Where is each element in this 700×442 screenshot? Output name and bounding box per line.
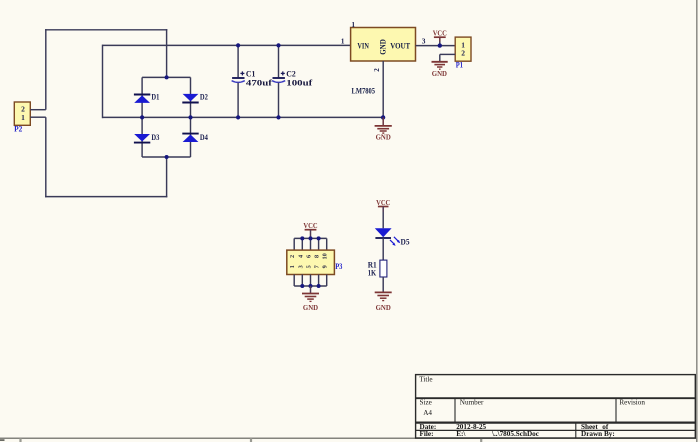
power VCC at D5 bbox=[376, 198, 390, 212]
node bridge top bbox=[165, 75, 169, 79]
node P3 top c bbox=[317, 236, 321, 240]
svg-text:P2: P2 bbox=[14, 124, 22, 133]
wire left vertical to top loop bbox=[45, 29, 47, 110]
svg-text:GND: GND bbox=[432, 69, 448, 78]
node P3 bottom c bbox=[317, 284, 321, 288]
ground GND at R1 bbox=[375, 292, 392, 311]
svg-text:GND: GND bbox=[376, 303, 392, 312]
svg-text:GND: GND bbox=[376, 133, 392, 142]
ground GND at P1 bbox=[432, 62, 448, 78]
wire R1 to ground bbox=[382, 277, 384, 292]
svg-text:VIN: VIN bbox=[357, 42, 369, 51]
label P3 bbox=[335, 262, 342, 271]
svg-text:D2: D2 bbox=[200, 93, 208, 102]
node P3 bottom b bbox=[309, 284, 313, 288]
node bridge left mid bbox=[140, 115, 144, 119]
wire drop to bridge top bbox=[166, 29, 168, 77]
svg-text:10: 10 bbox=[322, 253, 329, 259]
connector P3 bbox=[287, 250, 335, 274]
resistor R1 bbox=[368, 260, 387, 277]
wire riser to bridge bottom bbox=[166, 157, 168, 197]
pin 1 number bbox=[341, 36, 345, 45]
svg-text:7: 7 bbox=[314, 265, 321, 268]
wire P3 bottom bus bbox=[294, 275, 327, 287]
wire inner loop vertical bbox=[102, 45, 104, 119]
node VCC junction bbox=[438, 43, 442, 47]
LED D5 bbox=[375, 228, 410, 246]
node bridge right mid bbox=[188, 115, 192, 119]
svg-text:C1: C1 bbox=[246, 70, 256, 79]
wire middle rail bbox=[103, 116, 384, 118]
sheet corner mark bbox=[0, 439, 5, 441]
wire bridge right branch bbox=[190, 77, 192, 157]
svg-text:1: 1 bbox=[21, 113, 25, 122]
sheet right border bbox=[696, 0, 698, 442]
svg-text:\..\7805.SchDoc: \..\7805.SchDoc bbox=[491, 430, 540, 438]
wire bottom horizontal bbox=[45, 196, 167, 198]
wire VCC to D5 bbox=[382, 212, 384, 228]
node C2 top bbox=[276, 43, 280, 47]
wire P1 pin2 bbox=[440, 54, 455, 61]
node C1 top bbox=[236, 43, 240, 47]
svg-text:2: 2 bbox=[461, 48, 465, 57]
svg-text:LM7805: LM7805 bbox=[352, 87, 376, 96]
power VCC at output bbox=[433, 28, 447, 45]
svg-text:VOUT: VOUT bbox=[390, 42, 411, 51]
svg-text:Drawn By:: Drawn By: bbox=[581, 430, 615, 438]
node P3 top b bbox=[309, 236, 313, 240]
svg-text:Size: Size bbox=[420, 398, 432, 406]
label P1 bbox=[456, 61, 463, 70]
svg-text:1: 1 bbox=[341, 36, 345, 45]
diode D4 bbox=[182, 133, 208, 142]
ground GND below U1 bbox=[375, 117, 392, 141]
svg-text:Revision: Revision bbox=[619, 398, 645, 406]
svg-text:VCC: VCC bbox=[376, 198, 390, 207]
ground GND at P3 bbox=[302, 286, 319, 312]
svg-text:D5: D5 bbox=[401, 237, 410, 246]
wire U1 pin2 to ground bbox=[382, 61, 384, 117]
svg-text:Number: Number bbox=[460, 398, 484, 406]
pin 2 number bbox=[373, 68, 381, 72]
wire bridge bottom rail bbox=[142, 156, 190, 158]
svg-text:A4: A4 bbox=[423, 409, 432, 417]
svg-text:470uf: 470uf bbox=[246, 78, 272, 87]
svg-text:2: 2 bbox=[289, 255, 296, 258]
sheet zone tick 1 bbox=[19, 438, 21, 442]
svg-text:3: 3 bbox=[297, 265, 304, 268]
sheet bottom border bbox=[0, 437, 697, 439]
wire P2 pin1 stub bbox=[30, 116, 46, 118]
node ground junction bbox=[381, 115, 385, 119]
connector P2 bbox=[14, 102, 30, 125]
svg-text:D1: D1 bbox=[151, 93, 159, 102]
title block texts bbox=[419, 376, 645, 439]
svg-text:1: 1 bbox=[351, 20, 355, 29]
svg-text:6: 6 bbox=[306, 255, 313, 258]
wire bridge left branch bbox=[141, 77, 143, 157]
diode D3 bbox=[134, 133, 160, 143]
diode D2 bbox=[182, 93, 208, 103]
svg-text:3: 3 bbox=[422, 36, 426, 45]
svg-text:5: 5 bbox=[306, 265, 313, 268]
svg-text:GND: GND bbox=[379, 39, 388, 55]
wire D5 to R1 bbox=[382, 238, 384, 260]
svg-text:C2: C2 bbox=[286, 70, 296, 79]
svg-text:VCC: VCC bbox=[433, 28, 447, 37]
node C2 bottom bbox=[276, 115, 280, 119]
node P3 bottom a bbox=[300, 284, 304, 288]
power VCC at P3 bbox=[303, 221, 317, 238]
wire VOUT to P1 bbox=[416, 45, 456, 47]
svg-text:Title: Title bbox=[419, 376, 432, 384]
svg-text:P3: P3 bbox=[335, 262, 342, 271]
pin 3 number bbox=[422, 36, 426, 45]
sheet zone tick 2 bbox=[250, 438, 252, 442]
label P2 bbox=[14, 124, 22, 133]
svg-text:1: 1 bbox=[289, 265, 296, 268]
connector P1 bbox=[455, 37, 471, 61]
svg-text:8: 8 bbox=[314, 255, 321, 258]
regulator U1 LM7805 bbox=[351, 28, 416, 62]
diode D1 bbox=[134, 93, 160, 103]
wire P2 pin2 stub bbox=[30, 109, 46, 111]
wire P3 top bus bbox=[294, 238, 327, 250]
svg-text:GND: GND bbox=[303, 303, 319, 312]
wire top horizontal bbox=[45, 29, 167, 31]
wire bridge top rail bbox=[142, 76, 190, 78]
node P3 top a bbox=[300, 236, 304, 240]
node bridge bottom bbox=[165, 155, 169, 159]
svg-text:2: 2 bbox=[373, 68, 381, 72]
label designator 1 bbox=[351, 20, 355, 29]
title block bbox=[416, 375, 696, 438]
node C1 bottom bbox=[236, 115, 240, 119]
svg-text:100uf: 100uf bbox=[286, 78, 312, 87]
capacitor C1 bbox=[232, 45, 273, 117]
label LM7805 bbox=[352, 87, 376, 96]
svg-text:E:\: E:\ bbox=[456, 430, 466, 438]
svg-text:9: 9 bbox=[322, 265, 329, 268]
wire left vertical to bottom loop bbox=[45, 117, 47, 197]
svg-text:1K: 1K bbox=[368, 268, 377, 277]
wire VIN rail bbox=[103, 44, 351, 46]
svg-text:P1: P1 bbox=[456, 61, 463, 70]
svg-text:D3: D3 bbox=[151, 133, 159, 142]
capacitor C2 bbox=[272, 45, 313, 117]
sheet zone tick 3 bbox=[480, 438, 482, 442]
svg-text:File:: File: bbox=[420, 430, 434, 438]
svg-text:D4: D4 bbox=[200, 133, 208, 142]
